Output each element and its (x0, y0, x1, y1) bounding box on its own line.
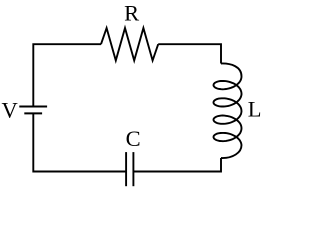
battery V short plate (24, 112, 42, 114)
wire left+top-left segment (33, 44, 101, 106)
capacitor C left plate (125, 152, 127, 186)
inductor L coil (214, 63, 242, 158)
svg-text:C: C (126, 126, 141, 151)
wire bottom-left segment (33, 113, 126, 171)
wire top-right segment (158, 44, 221, 63)
svg-text:L: L (248, 97, 262, 122)
wire bottom-right segment (133, 158, 221, 172)
resistor R (101, 28, 158, 61)
svg-text:V: V (2, 98, 18, 123)
battery V long plate (19, 106, 47, 108)
svg-text:R: R (124, 1, 139, 26)
capacitor C right plate (132, 152, 134, 186)
